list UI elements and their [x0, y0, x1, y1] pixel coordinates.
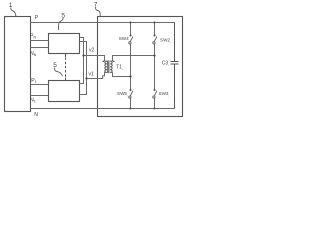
svg-text:7: 7 [94, 1, 98, 8]
svg-text:v2: v2 [89, 47, 95, 53]
svg-text:P: P [35, 15, 39, 21]
svg-text:5: 5 [61, 12, 65, 19]
svg-text:5: 5 [53, 62, 57, 69]
svg-text:1: 1 [9, 2, 13, 9]
svg-text:C3,: C3, [162, 60, 169, 66]
svg-text:N: N [34, 112, 38, 118]
svg-text:T1,: T1, [116, 65, 123, 71]
svg-text:v1: v1 [89, 72, 95, 78]
